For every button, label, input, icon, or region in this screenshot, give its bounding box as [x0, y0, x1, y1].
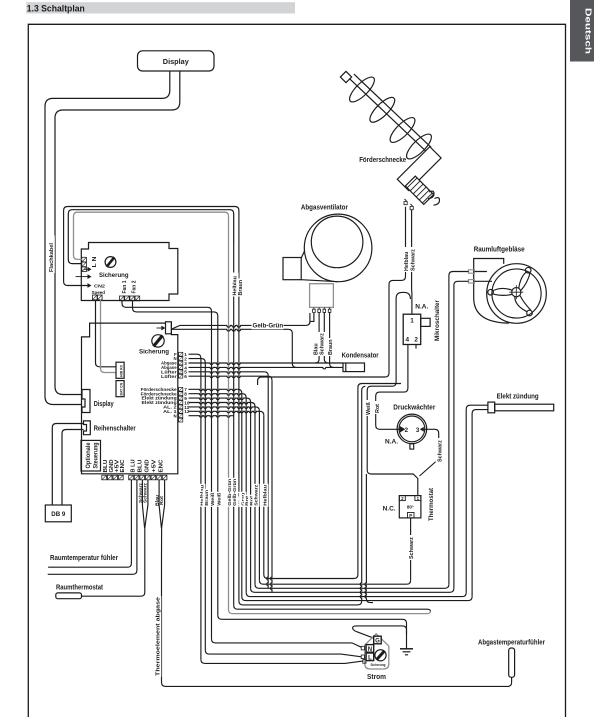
svg-text:GND: GND	[145, 459, 151, 472]
svg-text:Braun: Braun	[238, 280, 244, 296]
svg-text:Strom: Strom	[367, 674, 386, 681]
exhaust fan wire Schwarz down join row3 right	[324, 312, 328, 363]
svg-text:Sicherung: Sicherung	[371, 663, 386, 667]
svg-text:N.C.: N.C.	[383, 507, 396, 513]
plug L terminal	[366, 653, 374, 661]
svg-text:Druckwächter: Druckwächter	[393, 405, 435, 412]
header bar 1.3 Schaltplan	[26, 2, 295, 13]
svg-text:ENC: ENC	[120, 459, 126, 472]
arrow CN2 with stub	[76, 276, 88, 278]
svg-text:N.A.: N.A.	[385, 440, 398, 446]
svg-text:Schwarz: Schwarz	[411, 249, 417, 271]
svg-text:Raumtemperatur fühler: Raumtemperatur fühler	[50, 555, 118, 562]
Reihenschalter connector	[84, 421, 91, 435]
bottom pin header group1 labels	[103, 459, 126, 473]
svg-text:Thermostat: Thermostat	[429, 488, 435, 521]
right pin strip lower labels	[141, 387, 178, 418]
arrow CN2 lower with long loop wire to right bundle	[88, 283, 92, 288]
row wire pin1 F turning down	[189, 354, 201, 659]
row5 drop vertical to RL run join	[267, 376, 269, 589]
wires reihenschalter to DB9	[52, 424, 83, 506]
plug G terminal	[374, 636, 382, 644]
condenser symbol	[343, 363, 365, 372]
svg-text:BAT CN: BAT CN	[120, 382, 124, 395]
bottom run to thermostat wire	[259, 580, 410, 584]
pressure switch pin3 wire to thermostat junction	[420, 429, 439, 476]
exhaust fan wire Blau down to row3	[315, 312, 319, 363]
wire speed to comm module black	[96, 300, 117, 367]
svg-text:Raumthermostat: Raumthermostat	[56, 585, 104, 592]
thermostat box	[399, 496, 421, 518]
auger wire Helblau down and left to bundle	[258, 207, 406, 385]
svg-text:Weiß: Weiß	[210, 493, 216, 506]
branch wire from Schwarz to Weiss return	[367, 292, 418, 495]
through wire Helblau down to bottom runs	[233, 243, 235, 605]
short vertical with bumps near thermostat	[365, 474, 367, 599]
svg-text:N: N	[368, 647, 372, 653]
svg-text:Mikroschalter: Mikroschalter	[435, 299, 441, 341]
igniter rod	[488, 402, 554, 413]
display unit box	[138, 51, 215, 71]
svg-text:Rot: Rot	[159, 496, 165, 505]
svg-text:Schwarz: Schwarz	[143, 482, 149, 503]
svg-text:Gelb-Grün: Gelb-Grün	[253, 322, 284, 329]
svg-text:4: 4	[406, 337, 410, 344]
igniter wire upper	[466, 405, 488, 592]
svg-text:B LU: B LU	[130, 459, 136, 472]
svg-text:N: N	[173, 413, 176, 418]
plug fuse symbol	[375, 650, 386, 661]
svg-text:Abgasventilator: Abgasventilator	[301, 205, 348, 212]
mystery vertical 361.7 with bumps	[362, 386, 366, 390]
bottom run to short vertical	[239, 601, 362, 605]
ground symbol	[400, 649, 413, 655]
row6 drop vertical to RL run join	[271, 380, 273, 592]
bottom run to igniter wire 2	[242, 597, 472, 601]
svg-text:Display: Display	[163, 59, 189, 66]
mains pin header L N	[82, 257, 87, 271]
svg-text:HMI RX: HMI RX	[120, 364, 124, 377]
converging Blau Rot pair to thermocouple	[159, 480, 165, 560]
Helblau z label	[402, 247, 410, 272]
svg-text:+5V: +5V	[152, 459, 158, 473]
wire CN2 loop middle to pin block	[68, 210, 233, 264]
svg-text:Deutsch: Deutsch	[584, 8, 593, 54]
fuse symbol board1	[105, 257, 116, 268]
flat cable wire display right	[55, 71, 180, 395]
svg-text:L N: L N	[92, 256, 98, 267]
exhaust fan flange	[310, 284, 334, 308]
fuse symbol board2	[152, 335, 164, 347]
room fan body	[474, 259, 547, 324]
svg-text:Elekt zündung: Elekt zündung	[497, 394, 539, 401]
wire fan2 through to bottom runs	[133, 301, 218, 616]
Gelb-Gruen wire fuse to exhaust fan pin1	[171, 325, 180, 329]
Weiss label	[364, 400, 372, 416]
through wire gray down to bottom runs	[228, 243, 230, 610]
fuse holder on board2 top edge	[166, 322, 172, 334]
auger shaft	[349, 74, 431, 152]
plug N terminal	[366, 645, 374, 653]
room fan rotor	[488, 267, 532, 315]
Schwarz label thermostat	[407, 535, 415, 560]
bottom run hairpin upper	[234, 605, 431, 611]
Braun pair label	[236, 279, 244, 297]
svg-text:3: 3	[416, 427, 420, 434]
exhaust fan pins	[313, 307, 331, 312]
svg-text:CN2: CN2	[94, 283, 105, 289]
svg-text:1: 1	[410, 318, 414, 325]
thermocouple wire big loop to probe	[162, 560, 512, 686]
exhaust fan wire Braun join row4 right	[330, 312, 334, 367]
bottom run to ground	[218, 615, 407, 649]
microswitch pin4 wire to Rot and pressure switch pin2	[376, 345, 408, 432]
auger spiral loops	[346, 74, 435, 163]
Blau label	[312, 341, 320, 356]
svg-text:P: P	[409, 513, 412, 518]
flat cable wire display left	[45, 71, 170, 405]
bottom run hairpin lower gray	[229, 610, 431, 614]
svg-text:Schwarz: Schwarz	[409, 537, 415, 559]
bundle wire color labels	[198, 478, 268, 507]
room fan wire lower	[454, 281, 492, 588]
bottom run to plug slant 2	[201, 659, 364, 663]
exhaust temp probe	[509, 648, 515, 677]
svg-text:1.3 Schaltplan: 1.3 Schaltplan	[27, 4, 85, 14]
row wire pin6 Luefter to right drop	[189, 376, 269, 378]
plug wire pin stubs	[361, 646, 366, 663]
main board outline	[82, 323, 178, 474]
row wire pin4 Abgase to condenser	[189, 367, 344, 369]
svg-text:Schwarz: Schwarz	[438, 440, 444, 462]
row wire pin N join	[189, 416, 234, 418]
svg-text:Abgastemperaturfühler: Abgastemperaturfühler	[478, 639, 545, 646]
right pin strip lower	[179, 387, 183, 422]
wire BLU to room temp sensor lower	[48, 480, 137, 575]
Deutsch language tab	[570, 0, 594, 62]
bottom run to room fan wire 1	[255, 584, 449, 588]
svg-text:Lüfter: Lüfter	[161, 374, 177, 379]
auger connector hooks	[428, 191, 440, 205]
wire CN2 loop gray to pin block	[74, 212, 229, 259]
row wires pins 7-12 turning down at right of bundle	[189, 389, 264, 415]
right pin strip lower numbers	[184, 387, 190, 414]
room thermostat element	[56, 593, 82, 599]
svg-text:Thermoelement abgase: Thermoelement abgase	[155, 596, 161, 676]
svg-text:Sicherung: Sicherung	[99, 272, 129, 279]
svg-text:Sicherung: Sicherung	[139, 349, 169, 356]
power board outline	[81, 243, 178, 301]
bundle verticals rows 7-12 down to bottom runs	[242, 393, 264, 596]
svg-text:Förderschnecke: Förderschnecke	[359, 157, 406, 164]
Braun label	[326, 338, 334, 356]
Schwarz label	[318, 332, 326, 356]
svg-text:ENC: ENC	[159, 459, 165, 472]
speed pin block	[93, 295, 103, 300]
row wire pin3 Abgase to condenser	[189, 363, 344, 365]
svg-text:Schwarz: Schwarz	[319, 333, 325, 355]
svg-text:L: L	[368, 655, 372, 661]
igniter wire lower	[472, 410, 488, 597]
svg-text:80°: 80°	[407, 504, 414, 509]
svg-text:BLU: BLU	[137, 459, 143, 472]
through wire Braun down to bottom runs	[238, 243, 240, 601]
fan pin block	[120, 296, 140, 301]
bottom run to plug slant 1	[205, 650, 361, 657]
second wire fuse going right then down joins condenser row	[171, 329, 288, 331]
room fan connector pins gray	[469, 270, 475, 283]
svg-text:G: G	[375, 639, 380, 645]
Thermoelement abgase label	[153, 596, 161, 677]
wire fan1 through to bottom runs	[122, 301, 212, 639]
svg-text:DB 9: DB 9	[51, 511, 66, 518]
svg-text:Fan 1: Fan 1	[122, 281, 128, 294]
auger connector hatched	[405, 176, 433, 204]
auger shaft tip	[340, 71, 351, 82]
Gelb-Gruen label	[252, 322, 284, 329]
bottom pin header group2 labels	[130, 459, 164, 473]
exhaust fan volute body	[283, 214, 372, 282]
room fan wire upper	[449, 272, 487, 585]
comm module connector rect1	[116, 362, 124, 378]
pressure switch circles	[397, 414, 427, 449]
bottom run to room fan wire 2	[251, 588, 454, 592]
row wire pin2 N turning down	[189, 359, 206, 650]
svg-text:Rot: Rot	[375, 404, 381, 413]
power plug outline	[365, 634, 389, 669]
arrow to fuse holder	[157, 327, 162, 329]
svg-text:Weiß: Weiß	[216, 493, 222, 506]
svg-text:Helblau: Helblau	[262, 485, 268, 506]
auger pins	[404, 199, 413, 210]
svg-text:N.A.: N.A.	[415, 305, 428, 311]
arrow pin L	[84, 268, 88, 270]
svg-text:Reihenschalter: Reihenschalter	[94, 426, 136, 433]
thermostat bottom wire down to run	[410, 518, 412, 580]
comm module connector rect2	[116, 381, 124, 397]
Rot label	[373, 401, 381, 414]
DB 9 box	[45, 505, 71, 522]
auger wire Schwarz into microswitch	[411, 210, 413, 315]
right pin strip upper	[179, 352, 183, 378]
Schwarz z label	[409, 247, 417, 272]
display connector on board2	[82, 390, 90, 413]
right pin strip upper numbers	[184, 352, 187, 379]
converging Schwarz pair to room thermostat	[82, 480, 148, 596]
bottom run to igniter wire 1	[246, 593, 466, 597]
right pin strip upper labels	[161, 352, 177, 379]
svg-text:Optionale: Optionale	[85, 442, 92, 469]
auger motor block	[397, 147, 441, 191]
Optionale Steuerung box	[81, 440, 101, 471]
svg-text:Weiß: Weiß	[366, 402, 372, 415]
svg-text:6: 6	[184, 374, 187, 379]
svg-text:Steuerung: Steuerung	[92, 442, 99, 468]
svg-text:Schwarz: Schwarz	[254, 484, 260, 506]
svg-text:Display: Display	[94, 401, 114, 408]
microswitch box	[403, 314, 430, 344]
Helblau pair label	[231, 273, 239, 297]
svg-text:Kondensator: Kondensator	[342, 353, 379, 360]
bottom pin header group1	[102, 475, 123, 480]
plug G wire to ground line	[353, 626, 407, 638]
Schwarz label pressure switch	[436, 438, 444, 463]
svg-text:Braun: Braun	[328, 339, 334, 355]
svg-text:Raumluftgebläse: Raumluftgebläse	[474, 247, 525, 254]
wire BLU to room temp sensor upper	[48, 480, 131, 567]
wire speed to comm module gray	[101, 300, 117, 373]
microswitch pin2 stub	[415, 345, 417, 349]
svg-text:2: 2	[405, 427, 409, 434]
bottom run to mystery vertical 357.9	[264, 384, 401, 579]
svg-text:Fan 2: Fan 2	[132, 281, 138, 294]
svg-text:2: 2	[414, 337, 418, 344]
bottom run to plug N	[212, 639, 362, 647]
bottom pin header group2	[129, 475, 167, 480]
Flachkabel label	[47, 236, 55, 274]
svg-text:Flachkabel: Flachkabel	[49, 243, 55, 272]
row wire pin5 Luefter to right drop	[189, 372, 265, 374]
